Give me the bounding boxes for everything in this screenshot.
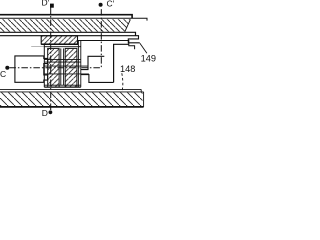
svg-text:C′: C′ [107, 0, 115, 9]
top scan line: lower edge line 2 [0, 36, 140, 43]
semiconductor island top edge [44, 46, 81, 48]
svg-text:148: 148 [120, 64, 135, 74]
C marker dot [5, 66, 9, 70]
drain electrode (right block) [81, 56, 114, 82]
bottom scan line: top edge line 2 [0, 91, 144, 93]
bottom scan line: top edge line 1 [0, 88, 141, 90]
leader line to 149 [140, 43, 147, 53]
pillar bottom edge line 2 [44, 86, 81, 88]
channel gap vertical 1 [60, 48, 62, 85]
top scan line hatched body [0, 19, 131, 31]
dashed leader from 148 [122, 73, 123, 91]
insulator step edge (line y40) [78, 41, 135, 50]
electrode finger line 1 [44, 59, 81, 61]
gate finger pillar A (hatched) [48, 48, 59, 87]
svg-text:D: D [42, 108, 48, 118]
drain stem corner and right edge [114, 44, 129, 82]
pillar bottom edge line 1 [44, 84, 81, 86]
gate bar thick bottom edge [41, 43, 78, 45]
bottom scan line right edge [141, 89, 143, 107]
C' marker dot [99, 3, 103, 7]
top scan line: lower edge line 1 [0, 32, 136, 35]
bottom scan line hatched body [0, 92, 143, 106]
electrode finger line 4 [44, 73, 89, 75]
source electrode (left C-shape) [15, 56, 48, 82]
electrode finger line 2 [44, 61, 81, 63]
top scan line: upper edge line 1 [0, 15, 132, 19]
bottom scan line thick bottom edge [0, 106, 144, 108]
section line C-C' (dash-dot) [9, 7, 101, 67]
channel gap vertical 2 [63, 48, 65, 85]
island right edge line 2 [80, 40, 82, 87]
gate connecting bar (hatched) [41, 36, 77, 44]
D' marker (square) [50, 4, 54, 8]
D marker dot [49, 110, 53, 114]
top scan line: upper edge line 2 [0, 18, 147, 20]
island right edge line 1 [77, 40, 79, 87]
section line D-D' (dash-dot) [50, 8, 52, 112]
island left edge [43, 44, 45, 87]
island top edge faint left part [31, 46, 44, 48]
svg-text:D′: D′ [42, 0, 50, 8]
electrode finger line 3 [44, 65, 88, 67]
svg-text:149: 149 [141, 54, 156, 64]
top scan line slanted right end [125, 19, 130, 31]
gate finger pillar B (hatched) [65, 48, 77, 87]
svg-text:C: C [0, 69, 6, 79]
